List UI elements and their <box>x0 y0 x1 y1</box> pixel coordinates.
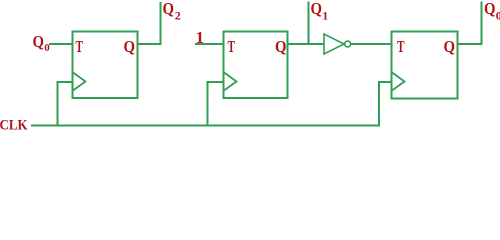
clock edge triangle U3 <box>392 73 405 91</box>
svg-text:Q: Q <box>311 0 323 18</box>
label Q1 <box>311 0 329 23</box>
wire Q0 input to U1.T <box>49 43 72 45</box>
flip-flop U3 box <box>392 32 458 99</box>
svg-text:Q: Q <box>33 32 45 51</box>
svg-text:1: 1 <box>196 28 205 47</box>
wire constant 1 to U2.T <box>195 43 223 45</box>
svg-text:Q: Q <box>275 37 287 56</box>
svg-text:Q: Q <box>484 0 496 18</box>
svg-text:2: 2 <box>175 9 181 23</box>
svg-text:T: T <box>228 37 236 56</box>
wire CLK bus <box>31 125 380 127</box>
wire CLK to U2 clock <box>208 82 224 126</box>
wire U1.Q to node Q2 <box>138 2 161 44</box>
label Q0 output <box>484 0 500 23</box>
clock edge triangle U2 <box>224 73 237 91</box>
svg-text:1: 1 <box>322 9 328 23</box>
svg-text:T: T <box>397 37 405 56</box>
svg-text:Q: Q <box>124 37 136 56</box>
flip-flop U1 box <box>73 32 138 99</box>
wire CLK to U3 clock <box>379 82 391 126</box>
wire U2.Q to inverter input <box>288 43 325 45</box>
svg-text:0: 0 <box>44 42 50 54</box>
svg-text:CLK: CLK <box>0 118 28 132</box>
svg-text:0: 0 <box>496 9 500 23</box>
wire node Q1 tap <box>308 2 310 45</box>
inverter G1 <box>324 34 351 54</box>
svg-text:Q: Q <box>444 37 456 56</box>
wire U3.Q to node Q0 <box>458 2 482 45</box>
wire CLK to U1 clock <box>58 82 73 126</box>
clock edge triangle U1 <box>73 73 86 91</box>
label Q2 <box>163 0 181 23</box>
svg-text:Q: Q <box>163 0 175 18</box>
wire inverter output to U3.T <box>351 43 392 45</box>
flip-flop U2 box <box>224 32 288 99</box>
svg-text:T: T <box>76 37 84 56</box>
label Q0 input <box>33 32 51 54</box>
